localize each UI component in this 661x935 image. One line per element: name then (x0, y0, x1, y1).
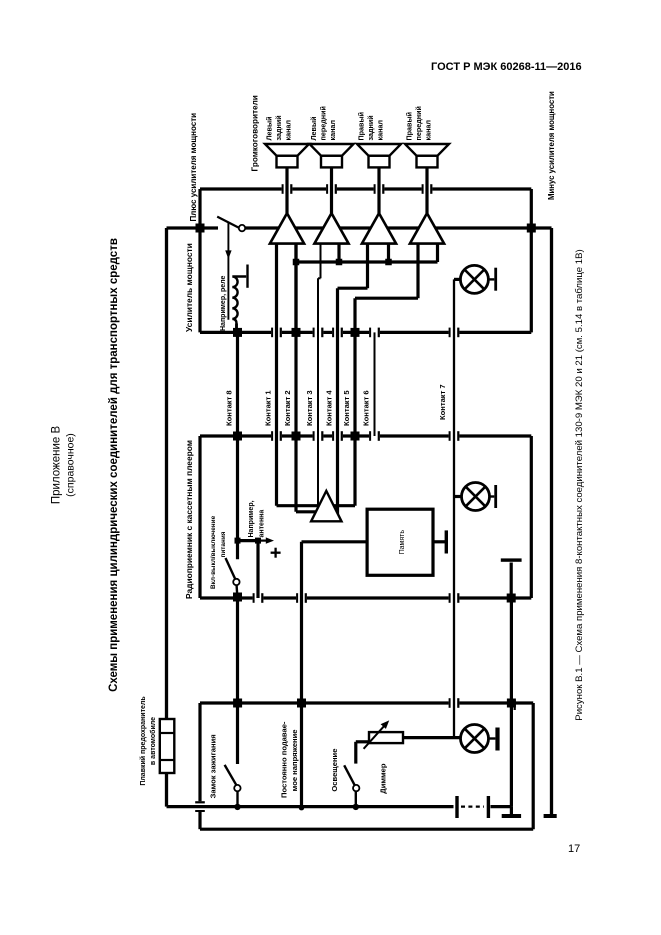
wire: ACC line car to radio (236, 598, 239, 703)
svg-text:Минус усилителя мощности: Минус усилителя мощности (547, 91, 556, 200)
wire: U4 input from speaker connector (425, 189, 428, 213)
svg-text:передний: передний (319, 106, 328, 140)
dimmer arrow (364, 724, 387, 749)
wire: radio lamp chassis stub (490, 495, 495, 497)
svg-text:Освещение: Освещение (330, 749, 339, 792)
switch S4 amp relay switch blade (217, 217, 238, 228)
svg-text:Например, реле: Например, реле (220, 275, 227, 331)
connector: right-front speaker wire at amp right border (422, 184, 424, 194)
wire: ACC inside radio (236, 436, 239, 559)
wire: ignition line in car (236, 703, 239, 764)
connector: contact3 at radio right border (313, 431, 315, 441)
relay K1 coil (235, 324, 238, 333)
wire: plus supply rail (165, 773, 168, 807)
svg-text:Левый: Левый (309, 116, 318, 140)
wire: constant voltage car to radio (300, 598, 303, 703)
svg-text:передний: передний (414, 106, 423, 140)
svg-text:Постоянно подавае-: Постоянно подавае- (280, 721, 289, 798)
connector: contact7 at radio right border (449, 431, 451, 441)
wire: lighting line stub from battery (355, 791, 357, 804)
svg-text:канал: канал (328, 120, 337, 141)
wire: minus rail drop from amp (531, 226, 551, 229)
svg-text:Замок зажигания: Замок зажигания (209, 734, 218, 798)
switch S4 contact (239, 225, 245, 231)
wire: T1 lower output (294, 244, 297, 333)
dimmer R1 variable resistor (369, 732, 403, 743)
lamp L3 amp illumination (460, 265, 488, 293)
junction: antenna node (255, 538, 261, 544)
junction: contact 8 at amp left border (233, 328, 242, 337)
connector: contact7 at amp left border (449, 328, 451, 338)
wire: contact 6 line (374, 332, 376, 436)
svg-text:канал: канал (376, 120, 385, 141)
op-amp U5 radio preamp (311, 491, 341, 521)
svg-text:(справочное): (справочное) (65, 433, 77, 497)
connector: left-front speaker wire at amp right border (326, 184, 328, 194)
connector: contact4 at amp left border (332, 328, 334, 338)
speaker LS2 (330, 167, 333, 189)
ground: car lamp chassis bar (495, 728, 499, 751)
op-amp U4 channel amplifier (410, 213, 444, 243)
page number 17 (568, 843, 580, 855)
connector: contact1 at amp left border (271, 328, 273, 338)
svg-text:Контакт 3: Контакт 3 (305, 390, 314, 426)
wire: lighting to dimmer (354, 742, 357, 764)
connector: right-rear speaker wire at amp right border (374, 184, 376, 194)
junction: ACC at radio right border (233, 432, 242, 441)
junction: contact5 radio border (351, 432, 360, 441)
page header (431, 61, 582, 73)
junction: minus rail at amp bottom border (527, 224, 536, 233)
svg-text:Вкл-выкл/выключение: Вкл-выкл/выключение (210, 515, 217, 589)
connector: contact6 at radio right border (369, 431, 371, 441)
wire: contact 8 line radio to amp (236, 332, 239, 436)
junction: ACC node in radio (235, 538, 241, 544)
svg-text:Громкоговорители: Громкоговорители (251, 95, 260, 171)
op-amp U1 channel amplifier (270, 213, 304, 243)
svg-text:питания: питания (220, 531, 227, 557)
ground: amp lamp chassis bar (494, 268, 497, 291)
speaker LS1 (285, 167, 288, 189)
junction: ACC at radio left border (233, 593, 242, 602)
switch S2 radio on-off blade (226, 558, 236, 579)
svg-text:в автомобиле: в автомобиле (149, 717, 157, 765)
svg-text:задний: задний (274, 115, 283, 140)
wire: contact 5 line in radio (353, 436, 356, 506)
ground: radio chassis bar (501, 558, 522, 561)
connector: antenna line through radio left border (253, 593, 255, 603)
connector: contact6 at amp left border (369, 328, 371, 338)
svg-text:Контакт 4: Контакт 4 (325, 390, 334, 426)
svg-text:канал: канал (424, 120, 433, 141)
switch S1 ignition contact (234, 785, 240, 791)
svg-text:мое напряжение: мое напряжение (290, 729, 299, 791)
svg-text:Левый: Левый (265, 116, 274, 140)
ground: minus rail chassis bar (544, 814, 557, 818)
car block outline (automobile) (198, 812, 201, 829)
ground: memory chassis bar (445, 530, 448, 553)
wire: battery line (167, 805, 454, 808)
wire: car lamp chassis stub (489, 737, 496, 739)
wire: radio chassis stub (510, 563, 513, 599)
junction: contact2 amp border (292, 328, 301, 337)
switch S2 radio on-off contact (233, 579, 239, 585)
switch S1 ignition lock blade (225, 765, 237, 785)
svg-text:Диммер: Диммер (379, 763, 388, 794)
wire: amp lamp chassis stub (488, 278, 494, 280)
radio block outline (radio receiver with cassette player) (198, 436, 201, 598)
connector: contact3 at amp left border (313, 328, 315, 338)
wire: amp feed from plus junction (200, 226, 218, 229)
fuse F1 (vehicle fuse) (160, 719, 175, 773)
wire: T4 lower output (436, 244, 439, 262)
connector: contact4 at radio right border (332, 431, 334, 441)
memory box (Память) (367, 509, 433, 575)
junction: bus at T2 lower (336, 259, 343, 266)
svg-text:Контакт 5: Контакт 5 (342, 390, 351, 426)
lamp L2 radio illumination (462, 483, 490, 511)
svg-text:Например,: Например, (248, 500, 255, 537)
svg-text:Плюс усилителя мощности: Плюс усилителя мощности (189, 113, 198, 222)
node: constant voltage tap on battery line (299, 805, 305, 811)
wire: U1 input from speaker connector (285, 189, 288, 213)
wire: illumination bus (453, 279, 455, 737)
switch S3 lighting contact (353, 785, 359, 791)
junction: ACC at car right border (233, 699, 242, 708)
ground: battery chassis bar (502, 814, 521, 818)
svg-text:задний: задний (366, 115, 375, 140)
battery B1 cells (455, 796, 458, 818)
svg-text:Радиоприемник с кассетным плее: Радиоприемник с кассетным плеером (184, 440, 194, 599)
svg-text:Усилитель мощности: Усилитель мощности (184, 243, 194, 332)
mechanical link relay to switch (227, 222, 229, 319)
wire: amp common bus (296, 260, 438, 263)
wire: contact 1 line (radio to T1 upper input) (275, 244, 278, 506)
svg-text:Контакт 2: Контакт 2 (283, 390, 292, 426)
svg-text:антенна: антенна (259, 510, 266, 538)
wire: T3 lower output (387, 244, 390, 262)
connector: contact1 at radio right border (271, 431, 273, 441)
svg-text:Контакт 6: Контакт 6 (362, 390, 371, 426)
wire: radio K2 stub (296, 510, 317, 513)
svg-text:Правый: Правый (405, 112, 414, 141)
antenna arrow (258, 539, 268, 541)
wire: T2 lower output (337, 244, 340, 262)
label antenna plus (274, 548, 276, 558)
wire: radio switch circle to border (235, 585, 238, 596)
wire: antenna line to radio left border (256, 541, 259, 598)
speaker LS3 (377, 167, 380, 189)
wire: dimmer to car lamp (403, 736, 461, 739)
junction: plus rail at amp top border (196, 224, 205, 233)
junction: constant voltage at car right border (297, 699, 306, 708)
wire: contact 4 line (336, 288, 339, 514)
svg-text:Схемы применения цилиндрически: Схемы применения цилиндрических соединит… (108, 238, 120, 692)
wire: U2 input from speaker connector (330, 189, 333, 213)
wire: battery to chassis stub (510, 807, 513, 814)
wire: U3 input from speaker connector (377, 189, 380, 213)
svg-text:Плавкий предохранитель: Плавкий предохранитель (139, 696, 147, 786)
wire: drop to memory box (302, 540, 368, 543)
wire: plus rail drop into amp (167, 226, 201, 229)
relay coil chassis tick (246, 265, 248, 288)
svg-text:Приложение В: Приложение В (51, 426, 63, 505)
op-amp U2 channel amplifier (314, 213, 348, 243)
connector: battery line through car top border (195, 810, 205, 812)
wire: constant voltage inside radio (300, 542, 303, 598)
op-amp U3 channel amplifier (362, 213, 396, 243)
svg-text:канал: канал (284, 120, 293, 141)
wire: amp feed through channel amplifiers (245, 226, 531, 229)
wire: chassis line car to radio (510, 598, 513, 807)
wire: amp lamp stub (454, 278, 460, 281)
svg-text:Контакт 8: Контакт 8 (225, 390, 234, 426)
wire: contact 3 jog (318, 277, 321, 279)
wire: radio lamp stub (454, 495, 462, 498)
wire: minus supply rail (550, 228, 553, 814)
speaker LS4 (425, 167, 428, 189)
connector: illumination line through radio left border (449, 593, 451, 603)
wire: contact 4 jog to T3 (338, 287, 368, 290)
wire: memory box chassis stub (433, 540, 445, 543)
svg-text:Контакт 1: Контакт 1 (264, 390, 273, 426)
connector: left-rear speaker wire at amp right border (282, 184, 284, 194)
wire: antenna drop (238, 539, 259, 542)
junction: contact2 radio border (292, 432, 301, 441)
junction: bus at T1 lower (293, 259, 300, 266)
junction: contact5 amp border (351, 328, 360, 337)
node: lighting tap on battery line (353, 804, 359, 810)
switch S3 lighting blade (344, 765, 355, 786)
amplifier block outline (power amplifier) (198, 189, 201, 332)
lamp L1 car illumination (461, 725, 489, 753)
junction: chassis line at car right border (507, 699, 516, 708)
connector: illumination line through car right border (449, 698, 451, 708)
wire: radio K1-K5 tie (277, 504, 356, 507)
ground: radio lamp chassis bar (494, 485, 497, 508)
svg-text:Память: Память (399, 530, 406, 555)
junction: bus at T3 lower (385, 259, 392, 266)
node: ignition tap on battery line (234, 804, 240, 810)
svg-text:Правый: Правый (357, 112, 366, 141)
wire: constant voltage line in car (300, 703, 303, 808)
wire: contact 5 jog to T4 (355, 297, 418, 300)
wire: contact 3 line (317, 278, 319, 505)
svg-text:Рисунок В.1 — Схема применения: Рисунок В.1 — Схема применения 8-контакт… (574, 249, 585, 720)
svg-text:Контакт 7: Контакт 7 (438, 384, 447, 420)
wire: contact 2 line (294, 244, 297, 512)
connector: constant-voltage line through radio left border (296, 593, 298, 603)
wire: ignition circle to battery tap (236, 791, 238, 804)
junction: chassis line at radio left border (507, 594, 516, 603)
wire: contact 5 line radio to amp (353, 298, 356, 436)
